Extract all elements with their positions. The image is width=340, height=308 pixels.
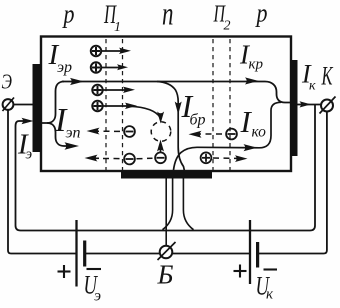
svg-text:Э: Э (2, 70, 13, 94)
svg-text:p: p (255, 0, 268, 28)
svg-text:p: p (62, 0, 75, 29)
svg-text:бр: бр (190, 112, 206, 129)
svg-text:кр: кр (249, 57, 264, 73)
svg-text:n: n (162, 0, 174, 33)
svg-text:эп: эп (66, 125, 81, 142)
svg-text:э: э (26, 147, 33, 163)
svg-text:эр: эр (57, 59, 72, 76)
svg-text:2: 2 (224, 19, 231, 34)
svg-text:ко: ко (252, 124, 267, 141)
svg-text:к: к (309, 79, 316, 94)
svg-text:к: к (266, 287, 274, 303)
svg-text:К: К (321, 62, 334, 91)
svg-text:Б: Б (157, 260, 174, 290)
svg-text:1: 1 (114, 20, 121, 35)
svg-text:э: э (94, 288, 101, 305)
